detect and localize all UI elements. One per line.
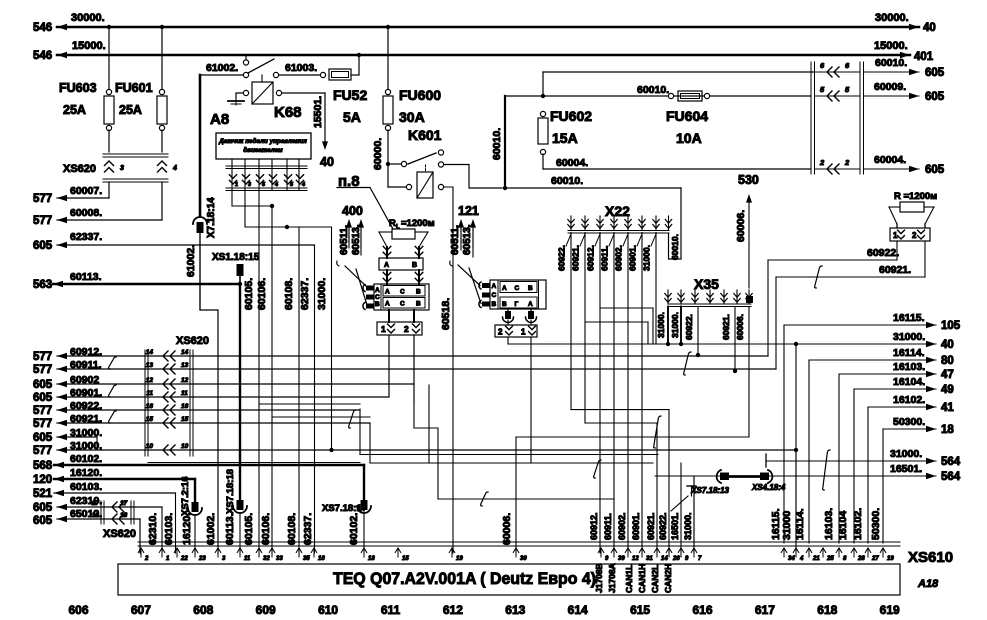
svg-text:31000.: 31000.	[642, 245, 652, 271]
svg-text:X7.18:14: X7.18:14	[206, 197, 217, 238]
svg-text:31000.: 31000.	[656, 312, 666, 338]
svg-text:401: 401	[914, 51, 934, 63]
svg-text:3: 3	[120, 165, 124, 172]
svg-text:2: 2	[819, 158, 825, 167]
svg-text:16115.: 16115.	[893, 312, 925, 324]
svg-text:60902.: 60902.	[617, 512, 627, 540]
svg-text:XS7.18:17: XS7.18:17	[322, 503, 367, 514]
svg-text:60000.: 60000.	[372, 138, 384, 170]
svg-text:A: A	[385, 289, 390, 296]
svg-text:B: B	[412, 262, 417, 269]
svg-text:60113.: 60113.	[224, 513, 236, 545]
svg-text:15501.: 15501.	[312, 96, 324, 128]
svg-text:530: 530	[738, 173, 759, 187]
svg-text:60106.: 60106.	[256, 278, 268, 310]
svg-text:Датчик педали управления: Датчик педали управления	[218, 137, 307, 145]
svg-text:16: 16	[318, 556, 325, 562]
svg-text:15A: 15A	[552, 130, 578, 146]
svg-text:605: 605	[33, 432, 53, 444]
svg-text:2: 2	[912, 231, 917, 240]
svg-text:60010.: 60010.	[551, 175, 583, 187]
svg-text:609: 609	[256, 603, 276, 617]
svg-text:16: 16	[146, 403, 154, 410]
svg-text:60102.: 60102.	[348, 513, 360, 545]
svg-text:60004.: 60004.	[874, 154, 906, 166]
svg-text:J1708A: J1708A	[607, 563, 617, 593]
svg-text:15000.: 15000.	[874, 40, 908, 52]
svg-text:23: 23	[198, 556, 206, 562]
svg-text:25: 25	[826, 556, 834, 562]
svg-text:C: C	[400, 289, 405, 296]
svg-text:619: 619	[880, 603, 900, 617]
svg-text:615: 615	[630, 603, 650, 617]
svg-text:32: 32	[263, 556, 270, 562]
svg-text:60105.: 60105.	[243, 513, 255, 545]
svg-text:120: 120	[33, 474, 52, 486]
svg-text:25A: 25A	[63, 103, 86, 117]
svg-text:60511.: 60511.	[339, 225, 350, 255]
svg-text:605: 605	[925, 67, 945, 79]
svg-text:60010.: 60010.	[670, 234, 680, 260]
svg-text:K68: K68	[274, 104, 302, 121]
svg-text:12: 12	[181, 377, 189, 384]
svg-text:60922.: 60922.	[684, 314, 694, 340]
svg-text:60921.: 60921.	[646, 512, 656, 540]
svg-text:3: 3	[248, 182, 251, 188]
svg-text:30A: 30A	[399, 109, 425, 125]
svg-text:610: 610	[318, 603, 338, 617]
svg-text:563: 563	[33, 279, 52, 291]
svg-text:15000.: 15000.	[72, 40, 106, 52]
svg-text:11: 11	[181, 390, 188, 397]
svg-text:16102.: 16102.	[893, 394, 925, 406]
svg-text:FU603: FU603	[59, 81, 97, 95]
svg-text:60921.: 60921.	[571, 245, 581, 271]
svg-text:611: 611	[381, 603, 401, 617]
svg-text:60006.: 60006.	[735, 210, 747, 242]
svg-text:60008.: 60008.	[70, 207, 102, 219]
svg-text:60912.: 60912.	[589, 512, 599, 540]
svg-text:577: 577	[33, 445, 52, 457]
svg-text:FU602: FU602	[550, 108, 592, 124]
svg-text:616: 616	[692, 603, 712, 617]
svg-text:FU52: FU52	[333, 87, 367, 103]
svg-text:19: 19	[887, 556, 894, 562]
svg-text:60902.: 60902.	[614, 245, 624, 271]
svg-text:521: 521	[33, 488, 53, 500]
svg-text:41: 41	[941, 402, 954, 414]
svg-text:K601: K601	[408, 127, 442, 143]
svg-text:62337.: 62337.	[299, 278, 311, 310]
svg-text:31000.: 31000.	[316, 278, 328, 310]
svg-text:40: 40	[320, 155, 334, 169]
svg-text:60105.: 60105.	[243, 278, 255, 310]
svg-text:16120.: 16120.	[181, 513, 193, 545]
svg-text:27: 27	[871, 556, 879, 562]
svg-text:18: 18	[941, 424, 954, 436]
svg-text:25A: 25A	[119, 103, 142, 117]
svg-text:17: 17	[92, 500, 100, 507]
svg-text:X22: X22	[605, 203, 630, 219]
svg-text:60106.: 60106.	[260, 513, 272, 545]
svg-text:18: 18	[368, 556, 375, 562]
svg-text:60006.: 60006.	[735, 314, 745, 340]
svg-text:546: 546	[33, 50, 52, 62]
svg-text:C: C	[492, 292, 497, 299]
svg-text:2: 2	[404, 324, 409, 334]
svg-text:60103.: 60103.	[70, 481, 102, 493]
svg-text:60921.: 60921.	[721, 314, 731, 340]
svg-text:21: 21	[812, 556, 820, 562]
svg-text:14: 14	[146, 349, 154, 356]
svg-text:J1708B: J1708B	[594, 563, 604, 593]
svg-text:10: 10	[181, 443, 189, 450]
svg-text:XS4.18:4: XS4.18:4	[751, 483, 786, 492]
svg-text:60108.: 60108.	[286, 513, 298, 545]
svg-text:49: 49	[941, 384, 954, 396]
svg-text:60912.: 60912.	[586, 245, 596, 271]
svg-text:60007.: 60007.	[70, 185, 102, 197]
svg-text:617: 617	[755, 603, 775, 617]
svg-text:60102.: 60102.	[70, 453, 102, 465]
svg-text:CAN1H: CAN1H	[637, 564, 647, 593]
svg-text:12: 12	[146, 377, 154, 384]
svg-text:60922.: 60922.	[658, 512, 668, 540]
svg-text:XS620: XS620	[63, 163, 96, 175]
svg-text:13: 13	[181, 362, 189, 369]
svg-text:60511.: 60511.	[450, 225, 461, 255]
svg-text:613: 613	[505, 603, 525, 617]
svg-text:605: 605	[33, 502, 53, 514]
svg-text:X35: X35	[694, 276, 719, 292]
svg-text:61003.: 61003.	[285, 62, 317, 74]
svg-text:28: 28	[857, 556, 865, 562]
svg-text:564: 564	[941, 456, 961, 468]
svg-text:60103.: 60103.	[163, 513, 175, 545]
svg-text:A: A	[492, 283, 497, 290]
svg-text:605: 605	[33, 379, 53, 391]
svg-text:13: 13	[146, 362, 154, 369]
svg-text:60006.: 60006.	[501, 513, 513, 545]
svg-text:60901.: 60901.	[628, 245, 638, 271]
svg-text:B: B	[375, 301, 380, 308]
svg-text:16103.: 16103.	[823, 508, 835, 540]
svg-text:2: 2	[844, 158, 850, 167]
svg-text:34: 34	[788, 556, 795, 562]
svg-text:16102.: 16102.	[852, 508, 864, 540]
svg-text:A: A	[502, 285, 507, 292]
svg-text:XS610: XS610	[908, 549, 953, 566]
svg-text:31000.: 31000.	[683, 512, 693, 540]
svg-text:50300.: 50300.	[893, 416, 925, 428]
svg-text:CAN1L: CAN1L	[624, 565, 634, 593]
svg-text:31000: 31000	[781, 511, 793, 540]
svg-text:B: B	[416, 289, 421, 296]
svg-text:577: 577	[33, 405, 52, 417]
svg-text:400: 400	[342, 204, 363, 218]
svg-text:40: 40	[941, 339, 954, 351]
svg-text:CAN2L: CAN2L	[650, 565, 660, 593]
svg-text:605: 605	[33, 515, 53, 527]
svg-text:4: 4	[172, 165, 177, 172]
svg-text:31000.: 31000.	[670, 312, 680, 338]
svg-text:C: C	[515, 285, 520, 292]
svg-text:5A: 5A	[343, 109, 361, 125]
svg-text:B: B	[416, 301, 421, 308]
svg-text:62337.: 62337.	[70, 231, 102, 243]
svg-text:605: 605	[33, 392, 53, 404]
svg-text:60922.: 60922.	[557, 245, 567, 271]
svg-text:60010.: 60010.	[637, 84, 669, 96]
svg-text:Г: Г	[515, 301, 519, 308]
svg-text:31: 31	[646, 556, 653, 562]
svg-text:14: 14	[181, 349, 189, 356]
svg-text:614: 614	[568, 603, 588, 617]
svg-text:1: 1	[521, 328, 526, 337]
svg-text:60901.: 60901.	[631, 512, 641, 540]
svg-text:564: 564	[941, 471, 961, 483]
svg-text:16501.: 16501.	[670, 512, 680, 540]
svg-text:19: 19	[456, 556, 463, 562]
svg-text:607: 607	[131, 603, 151, 617]
svg-text:612: 612	[443, 603, 463, 617]
svg-text:26: 26	[672, 556, 680, 562]
svg-text:577: 577	[33, 364, 52, 376]
svg-text:605: 605	[33, 240, 53, 252]
svg-text:606: 606	[68, 603, 88, 617]
svg-text:A8: A8	[210, 111, 229, 128]
svg-text:33: 33	[276, 556, 283, 562]
svg-text:60009.: 60009.	[874, 81, 906, 93]
svg-text:50300.: 50300.	[870, 508, 882, 540]
svg-text:30: 30	[520, 556, 527, 562]
svg-text:18: 18	[92, 512, 100, 519]
svg-text:18: 18	[120, 512, 128, 519]
svg-text:2: 2	[144, 556, 149, 562]
svg-text:1: 1	[381, 324, 386, 334]
svg-text:60010.: 60010.	[491, 128, 503, 160]
svg-text:4: 4	[799, 556, 804, 562]
svg-text:60921.: 60921.	[879, 264, 911, 276]
svg-text:1: 1	[235, 182, 238, 188]
svg-text:61002.: 61002.	[185, 245, 197, 277]
svg-text:XS7.18:13: XS7.18:13	[690, 486, 729, 495]
svg-text:61002.: 61002.	[205, 513, 217, 545]
svg-text:C: C	[375, 294, 380, 301]
svg-text:39: 39	[618, 556, 625, 562]
svg-text:16104.: 16104.	[893, 376, 925, 388]
svg-text:C: C	[400, 301, 405, 308]
svg-text:R: R	[389, 218, 396, 229]
svg-text:60010.: 60010.	[875, 57, 907, 69]
svg-text:60113.: 60113.	[70, 271, 102, 283]
svg-text:80: 80	[941, 355, 954, 367]
svg-text:16114.: 16114.	[893, 347, 925, 359]
svg-text:17: 17	[120, 500, 128, 507]
svg-text:62310.: 62310.	[147, 513, 159, 545]
svg-text:10A: 10A	[676, 130, 702, 146]
svg-text:XS620: XS620	[176, 335, 209, 347]
svg-text:60004.: 60004.	[556, 157, 588, 169]
svg-text:47: 47	[941, 369, 954, 381]
svg-text:2: 2	[498, 328, 503, 337]
svg-text:16: 16	[181, 403, 189, 410]
svg-text:4: 4	[301, 182, 305, 188]
svg-text:60513.: 60513.	[462, 224, 473, 255]
svg-text:A: A	[384, 262, 389, 269]
svg-text:40: 40	[923, 22, 936, 34]
svg-text:11: 11	[146, 390, 153, 397]
svg-text:15: 15	[402, 556, 409, 562]
svg-text:60108.: 60108.	[283, 278, 295, 310]
svg-text:15: 15	[146, 416, 154, 423]
svg-text:двигателем: двигателем	[243, 146, 283, 154]
svg-text:16120.: 16120.	[70, 467, 102, 479]
svg-text:60911.: 60911.	[603, 513, 613, 540]
svg-text:16501.: 16501.	[890, 463, 922, 475]
svg-text:31000.: 31000.	[890, 448, 922, 460]
svg-text:=1200м: =1200м	[401, 218, 435, 229]
svg-text:577: 577	[33, 351, 52, 363]
svg-text:A: A	[375, 287, 380, 294]
svg-text:TEQ Q07.A2V.001A ( Deutz Евро: TEQ Q07.A2V.001A ( Deutz Евро 4)	[333, 569, 596, 588]
svg-text:568: 568	[33, 460, 53, 472]
svg-text:60922.: 60922.	[867, 247, 899, 259]
svg-text:XS7.2:16: XS7.2:16	[180, 476, 191, 516]
svg-text:577: 577	[33, 193, 52, 205]
svg-text:30000.: 30000.	[875, 12, 909, 24]
svg-text:A: A	[528, 301, 533, 308]
svg-text:105: 105	[941, 320, 961, 332]
svg-text:60911.: 60911.	[600, 245, 610, 271]
svg-text:XS7.18:18: XS7.18:18	[225, 469, 236, 514]
svg-text:16103.: 16103.	[893, 361, 925, 373]
svg-text:XS620: XS620	[103, 528, 136, 540]
svg-text:35: 35	[303, 556, 310, 562]
svg-text:22: 22	[180, 556, 188, 562]
svg-text:CAN2H: CAN2H	[663, 564, 673, 593]
svg-text:60513.: 60513.	[351, 224, 362, 255]
svg-text:605: 605	[925, 164, 945, 176]
svg-text:L: L	[396, 225, 400, 231]
svg-text:15: 15	[181, 416, 189, 423]
svg-text:12: 12	[632, 556, 639, 562]
svg-text:605: 605	[925, 91, 945, 103]
svg-text:62337.: 62337.	[302, 513, 314, 545]
svg-text:FU600: FU600	[399, 87, 441, 103]
svg-text:546: 546	[33, 22, 52, 34]
svg-text:4: 4	[274, 182, 278, 188]
svg-text:60518.: 60518.	[440, 298, 452, 330]
svg-text:B: B	[492, 301, 497, 308]
svg-text:577: 577	[33, 215, 52, 227]
svg-text:R =1200м: R =1200м	[894, 191, 937, 202]
svg-text:10: 10	[146, 443, 154, 450]
svg-text:B: B	[528, 285, 533, 292]
svg-text:11: 11	[244, 556, 251, 562]
svg-text:31000.: 31000.	[893, 331, 925, 343]
svg-text:577: 577	[33, 418, 52, 430]
svg-text:30000.: 30000.	[71, 12, 105, 24]
svg-text:FU604: FU604	[666, 108, 708, 124]
svg-text:FU601: FU601	[115, 81, 153, 95]
svg-text:B: B	[502, 301, 507, 308]
svg-text:A18: A18	[917, 578, 939, 590]
svg-text:14: 14	[661, 556, 668, 562]
svg-text:XS1.18:15: XS1.18:15	[212, 252, 260, 263]
svg-text:16104: 16104	[837, 511, 849, 540]
svg-text:61002.: 61002.	[206, 62, 238, 74]
svg-text:A: A	[385, 301, 390, 308]
svg-text:121: 121	[458, 204, 479, 218]
svg-text:608: 608	[193, 603, 213, 617]
svg-text:618: 618	[817, 603, 837, 617]
